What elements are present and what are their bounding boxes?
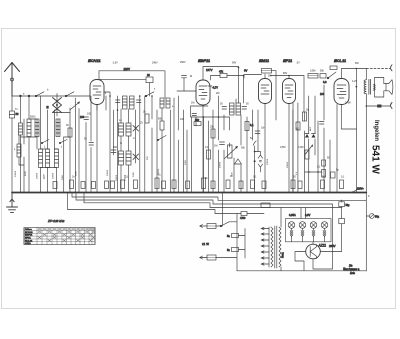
wire right verticals [293,85,330,192]
trimmer capacitor CT4 [133,154,139,160]
svg-text:EF11: EF11 [25,238,32,240]
svg-text:30000: 30000 [116,174,118,181]
switch S3 [157,136,166,141]
svg-text:10000: 10000 [125,174,127,181]
tube EBF11 U2 [196,80,212,192]
resistor R1 screen [146,74,153,96]
oscillator coil L10 [126,123,131,136]
loudspeaker LS1 [375,78,393,98]
diode D1 detector [235,159,242,164]
svg-text:10000: 10000 [53,172,55,179]
svg-text:21 W: 21 W [202,242,209,246]
capacitor C26 on bus [53,182,57,189]
svg-text:285V: 285V [329,244,336,248]
antenna [5,63,20,97]
wire osc verticals [104,92,191,192]
svg-text:100: 100 [80,116,85,119]
IF transformer T2 [160,98,170,108]
svg-text:1M: 1M [268,75,271,78]
capacitor C29 on bus [92,182,96,189]
capacitor C25 on bus [111,181,115,189]
svg-text:EBF11: EBF11 [198,58,211,63]
svg-text:25000: 25000 [158,168,160,175]
svg-text:220V≈: 220V≈ [357,188,364,191]
svg-text:ECH11: ECH11 [88,58,101,63]
wire mains routing [216,214,245,271]
svg-text:3000: 3000 [44,173,46,179]
capacitor C27 on bus [70,180,74,189]
trimmer arrow CT2 [71,98,80,111]
capacitor C28 on bus [81,182,85,189]
oscillator coil L9 [119,123,124,136]
svg-text:86V: 86V [283,72,288,75]
wire output top [342,69,367,130]
switch S5 mains [220,222,229,227]
output transformer T4 [364,79,375,106]
resistor R15 [322,170,326,178]
svg-text:250V: 250V [180,61,186,64]
alignment table [24,228,95,246]
capacitor C8 [222,107,227,110]
svg-text:7mW: 7mW [345,102,351,105]
dial lamp box [286,219,332,242]
resistor R21 on bus [202,178,206,189]
svg-text:50µ: 50µ [346,205,351,207]
svg-text:10000: 10000 [107,169,109,176]
resistor R3 [160,121,164,130]
resistor R6 [207,150,211,159]
resistor R27 on bus [340,180,344,189]
capacitor C1 antenna series [10,96,19,192]
capacitor C36 [261,203,270,208]
resistor R11 [320,74,326,79]
wire AVC link [305,171,322,173]
svg-text:-0,7V: -0,7V [212,87,218,90]
capacitor C10 [192,114,197,116]
svg-text:6V: 6V [244,69,248,73]
switch S1a [35,92,44,97]
svg-text:Röhre: Röhre [25,228,33,231]
svg-text:0,3M: 0,3M [298,146,303,149]
mains switch S4 [352,188,359,193]
svg-text:6,3V: 6,3V [305,213,311,217]
svg-text:Über Antenne u.: Über Antenne u. [343,268,360,271]
svg-text:197V: 197V [206,68,213,72]
wave band coil L7 [46,149,50,168]
capacitor C34 on bus [262,181,266,189]
resistor R20 on bus [172,180,176,189]
rectifier tube AZ11 U6 [301,244,325,259]
capacitor C14 [378,105,382,107]
svg-text:5000: 5000 [133,171,135,177]
svg-text:AZ11: AZ11 [318,244,327,248]
capacitor C20 [227,248,239,252]
note text bottom right [343,266,360,276]
svg-text:50000: 50000 [220,161,222,168]
tube EM11 U3 magic eye [259,74,272,192]
svg-text:5000: 5000 [30,116,36,119]
svg-text:4700: 4700 [240,217,246,220]
capacitor C3 [89,143,94,146]
resistor R8 0.1M [245,122,254,131]
ground symbol [7,192,18,212]
capacitor C17 mains [207,224,216,229]
svg-text:0,5M: 0,5M [310,70,315,73]
wire bias line [68,193,223,227]
electrolytic capacitor C21 [339,200,350,208]
resistor R17 on bus [121,180,125,189]
wire right side [356,106,390,271]
svg-text:1M: 1M [191,102,194,105]
svg-text:30000: 30000 [287,161,289,168]
electrolytic capacitor C22 [339,208,345,252]
mains plug arrow 2 [200,256,207,259]
tube ECL11 U5 [334,69,349,193]
svg-text:0,5M: 0,5M [280,146,285,149]
pickup jack J1 [253,141,262,192]
resistor R9 eye anode [244,69,276,121]
svg-text:AVC: AVC [309,126,312,131]
svg-text:-2V: -2V [296,62,300,65]
capacitor C7 [111,150,116,153]
svg-text:0,3: 0,3 [323,81,327,84]
resistor R10 [308,74,318,79]
capacitor C35 on bus [298,181,302,189]
svg-text:ZF=128 kHz: ZF=128 kHz [47,219,65,223]
capacitor C13 [330,66,337,70]
wire rectifier output [237,242,366,271]
band switch S1c [41,140,49,144]
capacitor C9 [242,107,247,110]
svg-text:EBF11: EBF11 [25,235,33,237]
wire antenna input line y96 [12,95,90,97]
resistor R26 [68,128,72,137]
resistor R24 on bus [291,180,295,189]
node A1 [20,95,22,97]
junction dots left [109,95,153,144]
svg-text:0,35A: 0,35A [289,213,296,217]
svg-text:5000: 5000 [62,174,64,180]
capacitor C15 [320,122,325,125]
wire heater line 1 [72,193,366,201]
svg-text:99V: 99V [232,62,237,65]
capacitor C33 on bus [239,181,243,189]
svg-text:2000: 2000 [76,170,78,176]
mains plug arrow 1 [200,225,207,228]
dial lamp LP2 [299,222,306,242]
svg-text:ECL11: ECL11 [25,241,33,243]
capacitor C24 on bus [105,181,109,189]
wire EBF plate line [203,67,239,104]
antenna coil L3 [35,119,39,137]
switch S1b [65,92,74,97]
capacitor C37 [182,75,192,91]
AVC diode D2 [305,134,309,138]
capacitor C30 on bus [162,181,166,189]
antenna coil L2 [27,119,31,137]
electrolytic symbol C23 [366,214,379,219]
wire heater line 2 [76,193,333,270]
svg-text:10000: 10000 [267,158,269,165]
potentiometer P2 [306,145,314,155]
resistor R5 50k [194,119,201,126]
antenna coil L4 [56,119,60,137]
dial lamp LP4 [321,222,328,242]
svg-text:2M: 2M [216,92,219,95]
rotated value labels [15,126,312,181]
wire AVC line [84,193,342,223]
dial lamp LP1 [288,222,295,242]
node T3 [366,105,368,107]
svg-text:1M: 1M [214,145,217,148]
svg-text:50µ: 50µ [375,216,380,219]
svg-text:220V: 220V [124,67,131,71]
tube ECH11 U1 [90,71,104,110]
wire left links [20,119,70,168]
oscillator coil L12 [126,151,131,165]
wire screen line y75.5 [211,76,244,104]
svg-text:ECL11: ECL11 [334,58,347,63]
antenna coil L1 [18,123,22,135]
svg-text:-1,9V: -1,9V [112,62,118,65]
svg-text:AZ11: AZ11 [25,243,32,246]
resistor R19 on bus [155,178,159,189]
resistor R4 47k [219,70,227,77]
resistor R22 on bus [226,180,230,189]
potentiometer P1 volume [225,145,238,159]
oscillator coil L11 [119,151,124,165]
node T1 [356,68,358,70]
svg-text:Erde: Erde [350,273,356,275]
capacitor C2 [80,116,89,120]
IF transformer T1 [123,96,135,109]
resistor R28 [296,122,300,130]
svg-text:10n: 10n [261,127,266,130]
svg-text:500: 500 [113,146,118,149]
wire screen line 196V [100,78,146,80]
power transformer T5 [261,222,281,271]
tube EF11 U4 [283,76,296,193]
svg-text:Ingelen: Ingelen [373,120,379,141]
capacitor C19 [227,234,239,238]
wire ECL cathode [341,105,356,130]
node A2 [28,95,30,97]
wire EF plate line y75.5 [270,76,304,113]
switch S6 tone [327,72,336,79]
earth terminal curl [391,103,393,109]
resistor R2 padder [145,114,149,123]
svg-text:EF11: EF11 [283,58,293,63]
svg-text:10000: 10000 [15,170,17,177]
capacitor C5 [116,100,121,103]
dial lamp LP3 [310,222,317,242]
wire EBF grid [177,90,196,92]
svg-text:4,2V: 4,2V [352,80,357,83]
switch S2 [145,92,154,97]
resistor R12 [302,112,306,121]
antenna terminal curl [391,65,393,71]
capacitor C32 on bus [211,181,215,189]
svg-text:ECH11: ECH11 [25,232,34,234]
band switch S1d [59,140,67,144]
svg-text:100: 100 [87,113,92,116]
junction dots mid [203,67,290,118]
wire detector lines [191,96,259,192]
value labels [14,61,370,198]
resistor R18 on bus [133,180,137,189]
svg-text:100: 100 [320,93,325,96]
capacitor C6 [137,100,142,103]
capacitor C16 [331,172,336,178]
svg-text:541 W: 541 W [370,145,381,174]
wire left verticals [20,96,97,192]
wave band coil L5 [17,135,24,165]
node T2 [356,86,358,88]
svg-text:1000: 1000 [185,159,187,165]
tuning capacitor CT1 [46,94,70,117]
svg-text:100: 100 [180,118,185,121]
capacitor C31 on bus [186,181,190,189]
capacitor C18 mains [207,255,216,260]
capacitor C12 coupling [255,131,260,134]
svg-text:248V: 248V [152,62,158,65]
wave band coil L8 [55,149,59,168]
svg-text:Netz: Netz [281,252,285,258]
capacitor C11 [220,142,225,145]
resistor R7 [211,129,215,138]
wire plate line 220V [99,71,165,98]
trimmer capacitor CT3 [133,126,139,132]
IF transformer T3 [230,103,241,115]
resistor R23 on bus [251,180,255,189]
resistor R14 [322,160,326,166]
svg-text:4000: 4000 [25,170,27,176]
resistor R25 on bus [321,180,325,189]
svg-text:0,1: 0,1 [250,124,254,127]
resistor R16 4700 [215,212,264,220]
wave band coil L6 [39,149,43,168]
ground bus [12,192,366,194]
AVC diode D3 [312,134,316,138]
wire antenna dash line [366,68,390,70]
resistor R13 [305,150,309,159]
svg-text:EM11: EM11 [259,58,270,63]
svg-text:20000: 20000 [37,172,39,179]
